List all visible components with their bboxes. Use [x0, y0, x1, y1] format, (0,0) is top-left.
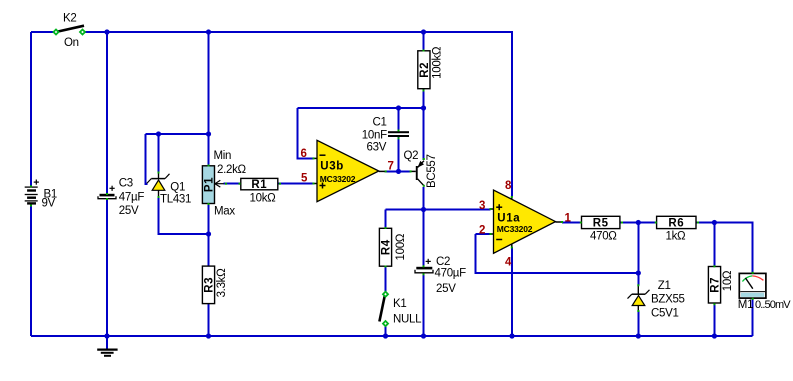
svg-text:25V: 25V: [436, 283, 456, 295]
wire Q2 collector vertical: [423, 187, 425, 210]
svg-text:C3: C3: [119, 177, 133, 189]
svg-text:470µF: 470µF: [435, 267, 467, 279]
wire pin3 run R4 corner to U1a: [386, 209, 491, 211]
svg-text:1kΩ: 1kΩ: [666, 230, 687, 242]
svg-text:TL431: TL431: [160, 193, 191, 205]
wire U3b pin6 feedback top: [298, 107, 399, 109]
svg-text:Z1: Z1: [658, 280, 671, 292]
switch K2: [52, 13, 86, 50]
svg-text:Max: Max: [214, 206, 235, 218]
svg-text:47µF: 47µF: [119, 191, 145, 203]
svg-text:M1: M1: [738, 299, 753, 311]
svg-text:U1a: U1a: [497, 212, 520, 224]
op-amp U1a: [479, 180, 572, 269]
svg-text:10Ω: 10Ω: [722, 270, 734, 291]
svg-text:10nF: 10nF: [362, 129, 387, 141]
wire top rail left of K2: [31, 31, 54, 33]
transistor Q2: [404, 150, 438, 188]
wire R5 to R6: [620, 222, 656, 224]
wire R6 to meter corner: [697, 223, 753, 273]
wire R2 top: [423, 32, 425, 51]
wire Q1 anode down and right: [159, 197, 209, 235]
svg-text:R1: R1: [251, 179, 267, 191]
resistor R4: [379, 228, 407, 266]
wire R2 bottom: [423, 89, 425, 108]
svg-text:Min: Min: [214, 150, 232, 162]
svg-text:K2: K2: [63, 13, 76, 25]
svg-text:Q1: Q1: [170, 181, 185, 193]
terminal node pixels: [30, 50, 754, 313]
svg-text:P1: P1: [204, 177, 216, 192]
svg-text:100Ω: 100Ω: [395, 233, 407, 260]
wire U1a pin4 to ground rail: [511, 247, 513, 336]
wire ground stub: [106, 336, 108, 349]
svg-text:MC33202: MC33202: [497, 224, 533, 234]
svg-text:2: 2: [479, 225, 485, 237]
svg-text:25V: 25V: [119, 205, 139, 217]
wire R3 bottom: [208, 304, 210, 336]
wire Q2 emitter vertical: [423, 108, 425, 160]
wire R1 to U3b pin5: [279, 183, 314, 185]
svg-text:K1: K1: [393, 298, 406, 310]
wire pot wiper to R1: [224, 183, 241, 185]
ground: [97, 350, 117, 356]
svg-text:6: 6: [301, 148, 307, 160]
svg-text:3: 3: [479, 200, 485, 212]
wire C3 bottom: [106, 199, 108, 336]
resistor R6: [657, 216, 696, 242]
wire C1 to R2 junction: [399, 107, 424, 109]
resistor R1: [241, 178, 278, 204]
wire R4 to K1: [385, 267, 387, 292]
wire meter bottom stub: [752, 298, 754, 337]
wire Z1 top: [637, 223, 639, 286]
wire U1a feedback loop: [476, 234, 639, 273]
wire P1 bottom to R3: [208, 204, 210, 267]
svg-text:C1: C1: [373, 116, 387, 128]
wire C2 top: [423, 210, 425, 267]
svg-text:1: 1: [565, 212, 572, 224]
switch K1: [379, 290, 422, 327]
wire top rail from K2 to top-right corner, down to U1a pin 8: [85, 32, 513, 197]
svg-text:BC557: BC557: [426, 154, 438, 188]
wire C1 top: [398, 108, 400, 131]
svg-text:470Ω: 470Ω: [590, 230, 617, 242]
svg-text:8: 8: [505, 180, 512, 192]
wire Z1 bottom: [637, 311, 639, 337]
op-amp U3b: [301, 140, 394, 201]
svg-text:Q2: Q2: [404, 150, 419, 162]
svg-text:0..50mV: 0..50mV: [755, 299, 791, 311]
svg-text:R3: R3: [204, 277, 216, 293]
svg-text:100kΩ: 100kΩ: [431, 46, 443, 79]
svg-text:2.2kΩ: 2.2kΩ: [217, 164, 247, 176]
svg-text:U3b: U3b: [320, 161, 344, 173]
resistor R5: [582, 216, 620, 242]
resistor R2: [418, 46, 444, 89]
svg-text:R7: R7: [710, 277, 722, 293]
shunt regulator Q1 TL431: [147, 172, 191, 205]
wire R4 top: [385, 210, 387, 229]
svg-text:10kΩ: 10kΩ: [250, 192, 277, 204]
wire C2 bottom: [423, 274, 425, 336]
capacitor C2: [415, 256, 466, 295]
svg-text:4: 4: [505, 257, 512, 269]
capacitor C1: [362, 116, 409, 153]
svg-text:R2: R2: [419, 62, 431, 78]
wire R7 top: [713, 223, 715, 267]
meter M1: [738, 273, 791, 310]
svg-text:C2: C2: [436, 256, 450, 268]
wire U1a pin2 stub: [476, 233, 491, 235]
wire C1 bottom: [398, 137, 400, 172]
svg-text:R4: R4: [381, 239, 393, 255]
wire R7 bottom: [713, 303, 715, 336]
svg-text:63V: 63V: [367, 142, 387, 154]
wire Q1 top tee horizontal: [146, 133, 209, 135]
battery B1: [25, 180, 57, 210]
capacitor C3: [98, 177, 144, 217]
wire bottom rail: [31, 335, 753, 337]
zener Z1: [628, 280, 685, 319]
potentiometer P1: [202, 150, 246, 218]
svg-text:BZX55: BZX55: [651, 294, 685, 306]
svg-text:On: On: [64, 37, 79, 49]
wire Q1 cathode: [158, 134, 160, 173]
svg-text:MC33202: MC33202: [320, 174, 356, 184]
svg-text:5: 5: [301, 173, 308, 185]
svg-text:R6: R6: [668, 218, 684, 230]
svg-text:C5V1: C5V1: [651, 307, 679, 319]
resistor R3: [202, 266, 227, 304]
wire P1 top rail: [208, 32, 210, 166]
wire U1a output to R5: [562, 222, 581, 224]
svg-text:3.3kΩ: 3.3kΩ: [216, 268, 228, 298]
wire C3 top: [106, 32, 108, 194]
wire left rail battery bottom: [30, 205, 32, 336]
wire K1 bottom: [385, 327, 387, 337]
wire U3b output to Q2 base: [385, 170, 412, 172]
wire U3b pin6 vertical: [298, 108, 314, 158]
wire Q1 ref loop vertical: [146, 134, 148, 184]
svg-text:R5: R5: [593, 218, 609, 230]
svg-text:9V: 9V: [42, 198, 56, 210]
svg-text:NULL: NULL: [393, 314, 422, 326]
resistor R7: [708, 267, 734, 304]
wire left rail battery top: [30, 32, 32, 186]
svg-text:7: 7: [388, 160, 394, 172]
